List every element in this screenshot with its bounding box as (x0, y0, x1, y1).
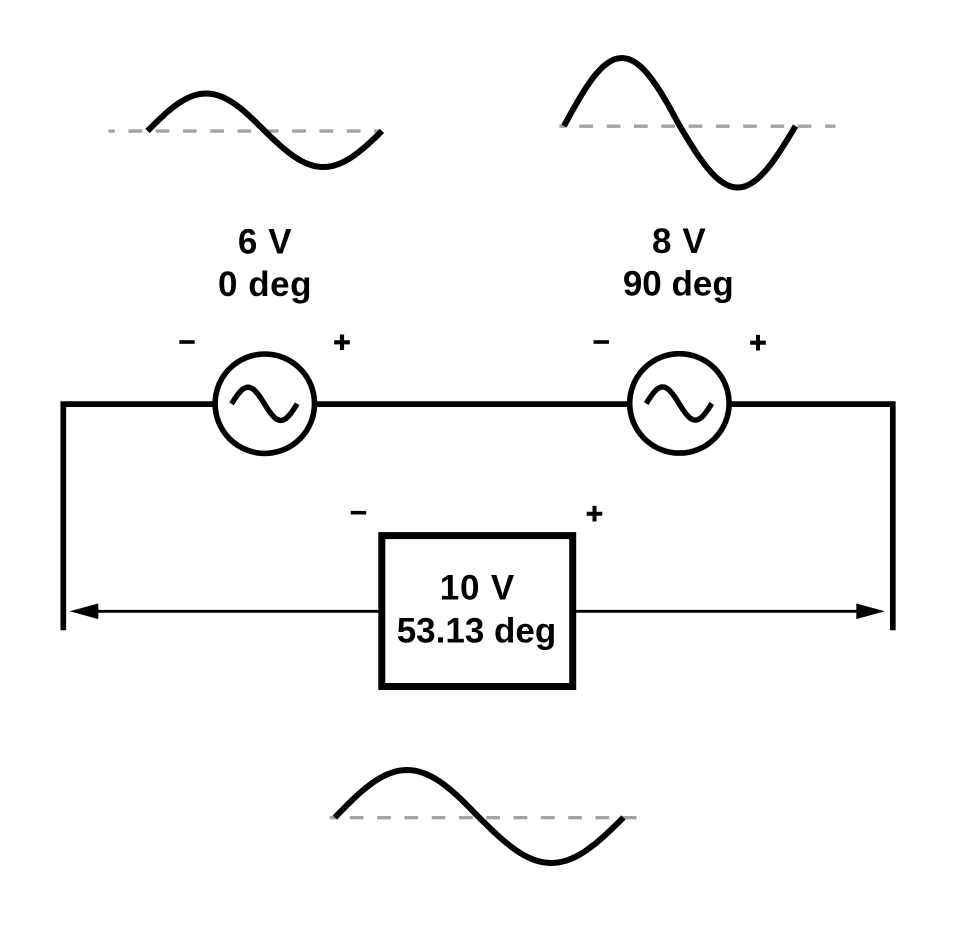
svg-text:53.13 deg: 53.13 deg (397, 612, 557, 651)
AC source E1 (6 V) circle (215, 354, 314, 453)
sine wave 6 V (148, 94, 383, 168)
svg-text:8 V: 8 V (652, 222, 706, 261)
total voltage arrow line (94, 610, 860, 613)
svg-text:90 deg: 90 deg (623, 265, 734, 304)
arrowhead right (856, 604, 885, 620)
baseline (dashed) for 6 V waveform (108, 129, 380, 132)
polarity - of total (351, 511, 366, 515)
wire middle (E1 to E2) (317, 401, 627, 407)
polarity - of source E1 (179, 340, 194, 344)
polarity - of source E2 (594, 340, 609, 344)
sine wave 10 V (335, 770, 624, 863)
sine wave 8 V (564, 58, 796, 188)
polarity + of source E1 (334, 335, 350, 351)
AC source E2 (8 V) circle (630, 354, 729, 453)
wire right (E2 to corner) (731, 404, 892, 630)
svg-text:6 V: 6 V (238, 222, 292, 261)
AC source E2 sine symbol (646, 387, 712, 420)
baseline (dashed) for 8 V waveform (559, 124, 835, 127)
baseline (dashed) for 10 V waveform (330, 816, 639, 819)
polarity + of source E2 (750, 335, 766, 351)
arrowhead left (70, 604, 99, 620)
svg-text:0 deg: 0 deg (218, 265, 312, 304)
svg-text:10 V: 10 V (440, 569, 515, 608)
wire left (corner to source E1) (63, 404, 212, 630)
result box 10 V (382, 536, 573, 687)
AC source E1 sine symbol (232, 387, 298, 420)
polarity + of total (587, 506, 603, 522)
